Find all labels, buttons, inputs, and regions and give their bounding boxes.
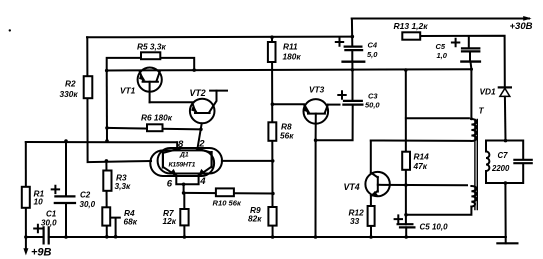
node C2 bottom rail [64, 235, 68, 239]
wire IC pin 8 lead [176, 142, 178, 149]
svg-text:+9В: +9В [31, 247, 52, 259]
svg-text:2: 2 [198, 138, 205, 149]
transistor VT1 [138, 68, 162, 92]
ground [497, 242, 517, 244]
svg-text:С4: С4 [368, 41, 378, 50]
svg-text:VD1: VD1 [480, 87, 497, 97]
wire line B (VT4 collector to winding1 bottom) [371, 140, 470, 142]
wire R1 column [25, 142, 27, 237]
node R1 bottom rail [24, 235, 28, 239]
node C5 bottom rail [404, 235, 408, 239]
capacitor C3 [343, 101, 362, 105]
wire rail D (y~142) [26, 141, 177, 143]
wire VT2 collector T-bar [210, 90, 227, 92]
node C7 bottom [504, 181, 508, 185]
node R14 column on rail B [404, 68, 408, 72]
svg-text:330к: 330к [60, 89, 79, 99]
svg-text:Д1: Д1 [179, 152, 189, 159]
node R11 top on rail A [270, 35, 274, 39]
IC left transistor [162, 152, 164, 167]
svg-text:R13 1,2к: R13 1,2к [394, 21, 429, 31]
wire VT3 collector line to C3 [328, 104, 340, 106]
svg-text:5,0: 5,0 [367, 50, 378, 59]
resistor R11 [268, 42, 276, 62]
svg-text:VT1: VT1 [120, 86, 136, 96]
capacitor C5 (1,0) [468, 37, 470, 47]
node VT3 base junction [271, 102, 275, 106]
node column on rail D [105, 139, 109, 143]
plus C5 top [452, 39, 459, 46]
resistor R3 [103, 171, 111, 191]
wire top supply rail to +30V [352, 18, 529, 20]
wire winding2 bottom to line D [406, 207, 471, 215]
svg-text:С1: С1 [46, 210, 57, 219]
resistor R10 [216, 188, 234, 196]
transistor VT4 [365, 172, 389, 196]
svg-text:1,0: 1,0 [437, 51, 448, 60]
wire column x106.7 rail B to rail D [106, 71, 108, 141]
wire rail B drop to winding 1 [470, 69, 472, 119]
svg-text:С5: С5 [436, 42, 446, 51]
svg-text:30,0: 30,0 [80, 200, 96, 209]
capacitor C1 (vertical plates in bottom rail) [44, 227, 49, 243]
capacitor C2 [55, 196, 75, 203]
node rail B right corner [470, 68, 473, 71]
arrow +9V [23, 248, 28, 255]
wire C7 bottom drop to ground [504, 183, 506, 243]
resistor R4 [102, 207, 110, 225]
node VT3 emitter / C3 [314, 138, 318, 142]
node R5 left on rail B [105, 69, 109, 73]
diode VD1 [499, 86, 511, 88]
node C7 top [504, 139, 508, 143]
resistor R12 [368, 206, 375, 226]
wire C4 column (top rail down to rail B) [351, 19, 354, 70]
svg-text:3,3к: 3,3к [115, 181, 132, 191]
node C5 top / line D [404, 213, 408, 217]
svg-text:С2: С2 [80, 191, 91, 200]
IC right transistor [211, 152, 213, 167]
wire bottom rail left segment [26, 236, 44, 238]
svg-text:8: 8 [178, 139, 184, 150]
svg-text:R5 3,3к: R5 3,3к [137, 42, 166, 52]
capacitor C7 tank loop with winding [486, 141, 523, 184]
wire VT3 base line [272, 103, 304, 105]
node VT3 emitter bottom rail [314, 235, 318, 239]
node line A corner [470, 117, 473, 120]
wire R12 bottom [370, 226, 372, 237]
wire rail A (top-left horizontal, y=37) [87, 36, 352, 39]
wire rail C (R6 line) [107, 128, 201, 129]
svg-text:4: 4 [199, 176, 206, 187]
wire R3/R4 column [105, 161, 107, 237]
node IC pin bus [182, 183, 186, 187]
node IC right base junction [271, 159, 275, 163]
svg-text:К159НТ1: К159НТ1 [169, 161, 196, 168]
wire IC right base line [222, 160, 273, 162]
svg-text:68к: 68к [124, 217, 138, 227]
node C2 top on rail D [64, 139, 68, 143]
svg-text:10: 10 [34, 197, 44, 207]
resistor R13 [402, 32, 420, 39]
transistor VT3 [304, 99, 329, 124]
svg-text:82к: 82к [248, 214, 262, 224]
node R10 right junction [271, 192, 275, 196]
node R14 / VT4 base [404, 183, 408, 187]
resistor R5 [141, 52, 160, 59]
resistor R1 [22, 187, 30, 208]
wire +9V drop [25, 237, 27, 250]
plus C3 [338, 91, 345, 98]
node stub bottom rail [114, 235, 118, 239]
node R4 bottom rail [105, 235, 109, 239]
transformer T core [475, 120, 477, 210]
wire line A (winding1 top tap) [406, 117, 469, 119]
svg-text:С7: С7 [498, 151, 509, 160]
svg-text:50,0: 50,0 [365, 101, 380, 110]
resistor R14 [402, 152, 410, 170]
wire R7 column [183, 193, 185, 237]
wire VT1 collector to VT2 [150, 101, 194, 103]
wire VT3 emitter column [315, 140, 317, 237]
node C4 top on rail A [351, 35, 355, 39]
winding L2 bumps on loop left [486, 152, 489, 172]
svg-text:R2: R2 [65, 79, 76, 89]
capacitor C4 [345, 47, 362, 51]
svg-text:С5 10,0: С5 10,0 [420, 223, 449, 232]
node C4/C3 on rail B [351, 68, 355, 72]
svg-text:30,0: 30,0 [41, 219, 57, 228]
node R3 top on rail E [105, 159, 109, 163]
node R5 right on rail B [192, 68, 196, 72]
svg-text:47к: 47к [413, 161, 428, 171]
stray ink dot top-left [9, 29, 11, 31]
node R9 bottom rail [271, 235, 275, 239]
wire R14 column [405, 70, 407, 224]
svg-text:2200: 2200 [491, 164, 510, 173]
wire rail B (long horizontal y~70) [107, 69, 472, 70]
svg-text:6: 6 [167, 178, 173, 189]
plus C2 [52, 186, 59, 193]
node rail C at VT2 emitter [199, 128, 203, 132]
node R7 bottom rail [183, 235, 187, 239]
resistor R2 [84, 76, 93, 98]
wire VT4 base line C [378, 184, 467, 186]
winding 2 (feedback) [471, 186, 476, 207]
plus C5 bottom [395, 215, 402, 222]
wire R10 line [184, 192, 273, 195]
node R12 bottom rail [369, 235, 373, 239]
wire bottom rail main segment [49, 236, 506, 238]
svg-text:33: 33 [350, 216, 360, 226]
plus C1 [34, 225, 41, 232]
svg-text:R6 180к: R6 180к [141, 113, 173, 123]
stub with tick near R4 [111, 218, 120, 237]
svg-text:56к: 56к [280, 130, 294, 140]
node R10 left junction [182, 191, 186, 195]
wire R5 branch [107, 58, 195, 71]
capacitor C5 (10,0) [398, 224, 415, 227]
svg-text:С3: С3 [368, 92, 378, 101]
transistor VT2 [190, 99, 215, 124]
svg-text:+30В: +30В [510, 21, 533, 32]
wire C2 column [65, 142, 67, 237]
wire C3 bottom line [316, 105, 353, 141]
wire R2 column with bend into rail E (IC left base) [87, 37, 151, 162]
svg-text:VT4: VT4 [344, 182, 360, 192]
wire R11/R8/R9 column [271, 37, 274, 237]
capacitor C7 plates [514, 160, 531, 163]
resistor R7 [180, 209, 188, 225]
svg-text:R10 56к: R10 56к [213, 199, 242, 208]
wire IC pin 6 and pin 4 bus [176, 176, 198, 193]
winding 1 (primary top) [471, 119, 476, 141]
svg-text:VT3: VT3 [309, 85, 325, 95]
svg-text:12к: 12к [163, 216, 177, 226]
resistor R9 [268, 207, 276, 226]
svg-text:R11: R11 [283, 42, 298, 52]
node rail C start [105, 126, 109, 130]
resistor R6 [147, 124, 163, 131]
arrow +30V [523, 16, 531, 21]
plus C4 [336, 38, 343, 45]
svg-text:180к: 180к [283, 52, 302, 62]
wire R13 line to right corner and down to VD1 [420, 36, 505, 87]
svg-text:VT2: VT2 [190, 88, 206, 98]
IC D1 K159NT1 oval (two stadiums) [150, 150, 214, 176]
resistor R8 [268, 122, 276, 141]
